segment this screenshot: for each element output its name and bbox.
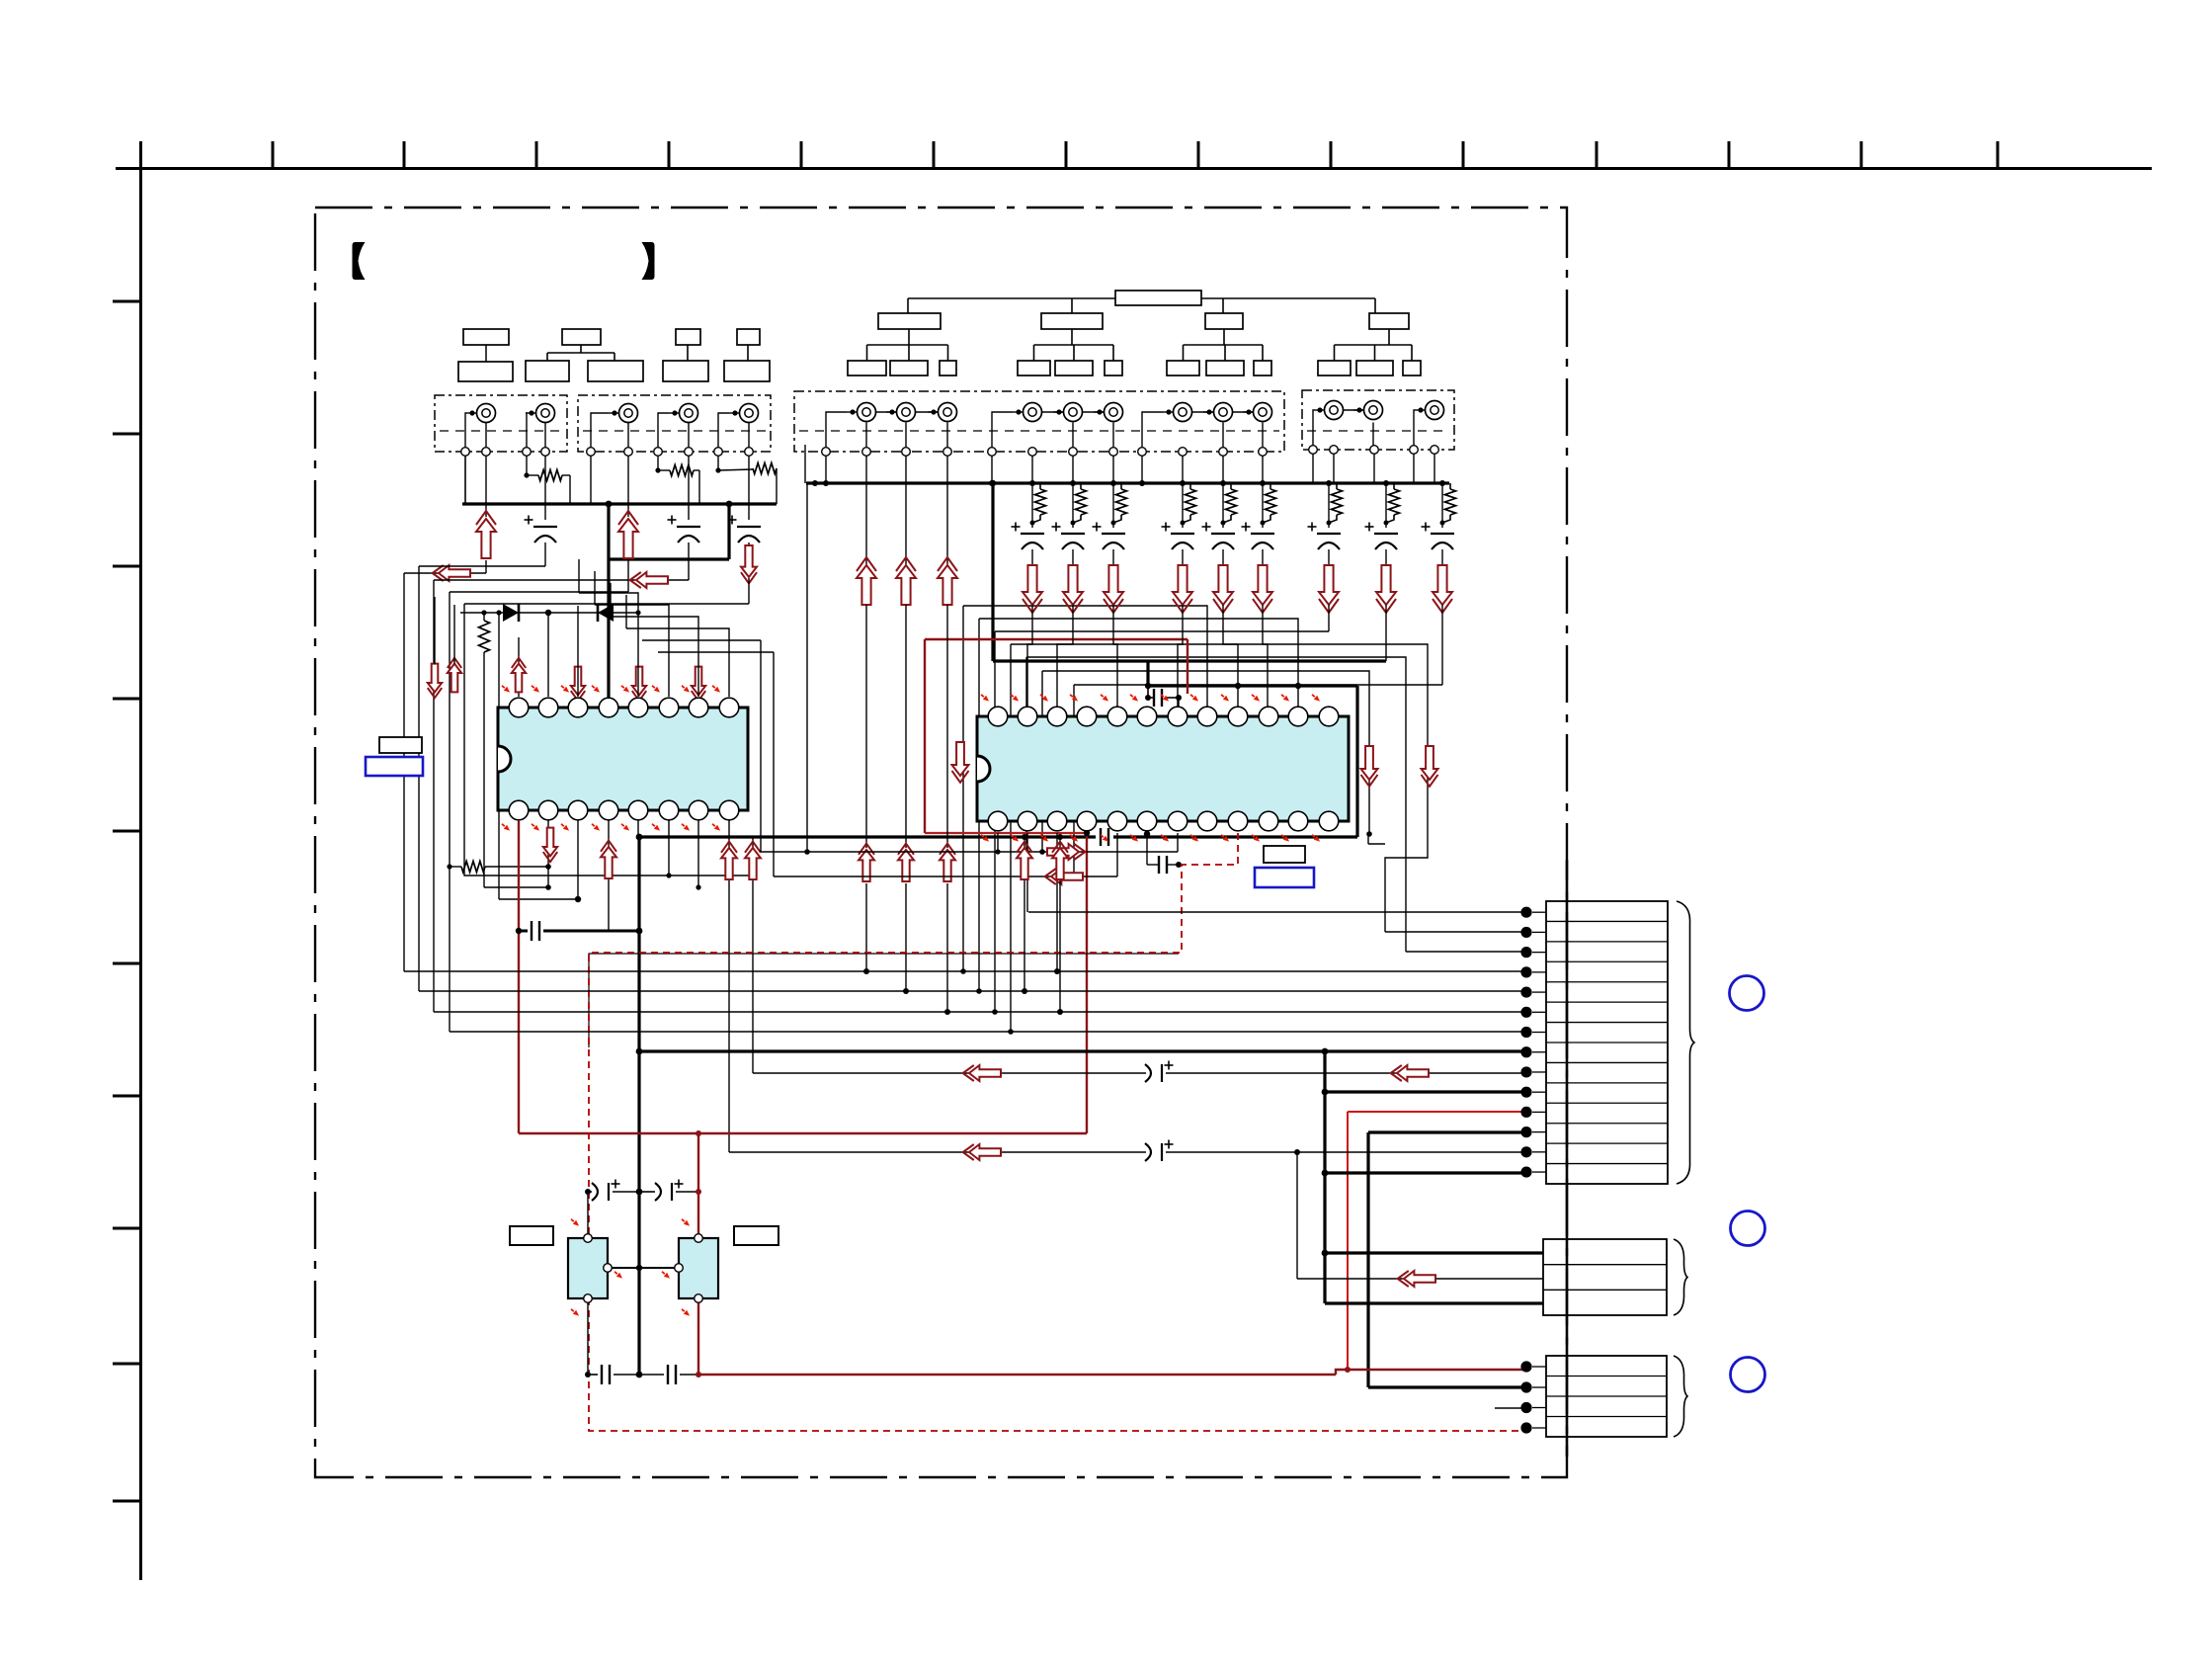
signal arrow: [1319, 565, 1339, 613]
wire: [1166, 1072, 1526, 1074]
wire: [1223, 605, 1238, 708]
wire: [587, 1298, 589, 1375]
pin arrow: [1038, 693, 1049, 704]
wire: [924, 639, 926, 833]
brace: [1674, 1239, 1687, 1315]
pin: [943, 448, 952, 457]
wire: [450, 591, 628, 593]
wire: [595, 571, 669, 697]
connector pin: [1520, 1361, 1546, 1372]
pin arrow: [1159, 833, 1170, 844]
wire: [642, 639, 761, 641]
connector pin: [1520, 907, 1546, 918]
wire: [1263, 605, 1268, 708]
connector pin: [1520, 1007, 1546, 1018]
capacitor C: [1093, 523, 1126, 550]
pin arrow: [1068, 693, 1079, 704]
IC U2: [977, 707, 1349, 831]
wire: [1008, 644, 1428, 1035]
signal arrow: [1361, 746, 1378, 787]
capacitor C12: [602, 1365, 610, 1384]
wire: [547, 613, 549, 697]
wire: [718, 413, 729, 448]
wire: [1414, 410, 1415, 446]
pin: [1309, 446, 1318, 455]
signal arrow: [571, 667, 585, 702]
signal arrow: [857, 557, 876, 605]
wire: [1178, 605, 1183, 708]
signal arrow: [1398, 1271, 1435, 1287]
jack J1: [466, 404, 496, 423]
wire: [946, 483, 948, 565]
wire: [1072, 549, 1074, 565]
wire: [526, 413, 527, 448]
wire: [1322, 1089, 1526, 1096]
signal arrow: [859, 844, 874, 881]
wire: [544, 542, 546, 566]
signal arrow: [745, 842, 761, 879]
wire: [1148, 697, 1154, 699]
wire: [865, 423, 867, 448]
wire: [804, 445, 810, 855]
resistor R5: [479, 621, 490, 652]
pin: [482, 448, 491, 457]
signal arrow: [1052, 842, 1068, 879]
wire: [753, 1072, 1146, 1074]
jack J17: [1415, 401, 1444, 420]
pin arrow: [500, 822, 511, 833]
label box: [1318, 313, 1421, 376]
pin: [461, 448, 470, 457]
node: [823, 480, 1145, 486]
signal arrow: [1391, 1065, 1429, 1081]
transistor Q2: [675, 1234, 718, 1303]
wire: [1039, 671, 1372, 855]
wire: [1182, 456, 1184, 483]
wire: [1113, 835, 1357, 838]
wire: [1566, 860, 1569, 1457]
capacitor C: [1422, 523, 1455, 550]
wire: [435, 597, 454, 664]
wire: [1182, 549, 1184, 565]
jack J4: [669, 404, 698, 423]
wire: [748, 456, 750, 520]
resistor R: [1073, 483, 1087, 523]
pin: [1179, 448, 1188, 457]
wire: [857, 410, 1373, 412]
wire: [1440, 483, 1445, 528]
wire: [636, 820, 643, 840]
label box: [379, 737, 422, 753]
wire: [658, 413, 669, 448]
jack J6: [847, 403, 876, 422]
wire: [1322, 1250, 1543, 1257]
wire: [1368, 834, 1526, 932]
wire: [1146, 661, 1149, 686]
connector pin: [1520, 1127, 1546, 1137]
wire: [905, 456, 907, 483]
resistor R: [1113, 483, 1127, 523]
wire: [1366, 1132, 1369, 1387]
wire: [585, 1372, 598, 1377]
resistor R3: [718, 463, 777, 474]
connector box (dash-dot): [1302, 390, 1454, 450]
diode D1: [503, 604, 519, 622]
wire: [1323, 1051, 1326, 1303]
signal arrow: [692, 667, 705, 702]
wire: [688, 542, 690, 580]
wire: [589, 954, 1179, 1047]
wire: [697, 1298, 699, 1375]
wire: [1297, 1278, 1543, 1280]
connector box (dash-dot): [435, 395, 567, 452]
wire: [1495, 1407, 1526, 1409]
label box: [1264, 846, 1305, 863]
pin arrow: [1219, 833, 1230, 844]
wire: [992, 631, 1329, 1015]
wire: [1054, 833, 1060, 974]
signal arrow: [632, 667, 646, 702]
pin arrow: [1188, 693, 1199, 704]
jack J13: [1203, 403, 1233, 422]
wire: [1328, 549, 1330, 565]
wire: [1116, 833, 1118, 876]
wire: [1024, 657, 1406, 952]
capacitor C1: [525, 516, 558, 543]
wire: [1262, 456, 1264, 483]
pin arrow: [680, 684, 691, 695]
label box: [663, 329, 708, 381]
wire: [464, 604, 753, 876]
wire: [992, 412, 1013, 448]
pin arrow: [1219, 693, 1230, 704]
pin arrow: [1310, 693, 1321, 704]
bracket [: [353, 242, 366, 280]
pin: [862, 448, 871, 457]
pin arrow: [530, 684, 540, 695]
pin: [988, 448, 997, 457]
signal arrow: [963, 1144, 1001, 1160]
wire bus (line input ground): [806, 480, 1449, 486]
wire: [608, 1265, 679, 1271]
wire: [1112, 549, 1114, 565]
connector pin: [1520, 1422, 1546, 1433]
marker circle (blue): [1730, 976, 1764, 1011]
wire: [976, 619, 1298, 994]
wire: [579, 559, 638, 697]
wire: [1072, 456, 1074, 483]
signal arrow: [476, 511, 496, 558]
wire: [403, 573, 405, 971]
signal arrow: [1376, 565, 1396, 613]
wire: [697, 1133, 699, 1238]
wire: [1031, 456, 1033, 483]
jack J16: [1353, 401, 1383, 420]
wire: [946, 605, 948, 848]
wire: [485, 560, 487, 573]
pin arrow: [1159, 693, 1170, 704]
wire: [1385, 605, 1387, 661]
wire: [1325, 1301, 1543, 1304]
node: [1439, 480, 1445, 486]
signal arrow: [896, 557, 916, 605]
wire: [728, 820, 730, 1152]
capacitor C2: [668, 516, 701, 543]
wire: [1177, 833, 1179, 852]
wire: [639, 835, 1096, 838]
pin arrow: [619, 684, 630, 695]
wire: [863, 883, 869, 974]
signal arrow: [543, 828, 557, 863]
wire: [1312, 454, 1314, 483]
jack J8: [928, 403, 957, 422]
connector pin: [1520, 1087, 1546, 1098]
signal arrow: [741, 545, 757, 583]
wire: [698, 1367, 1526, 1375]
wire: [434, 1011, 1526, 1013]
signal arrow: [1213, 565, 1233, 613]
wire: [627, 560, 629, 592]
connector pin: [1520, 1402, 1546, 1413]
connector pin: [1520, 1046, 1546, 1057]
resistor R: [1386, 483, 1400, 523]
label box: [848, 313, 956, 376]
node: [1383, 480, 1389, 486]
wire: [524, 472, 570, 504]
signal arrow: [1023, 565, 1042, 613]
signal arrow: [618, 511, 638, 558]
wire: [774, 652, 1117, 876]
wire: [905, 483, 907, 565]
diode D2: [598, 604, 614, 622]
capacitor C: [1308, 523, 1342, 550]
pin: [587, 448, 596, 457]
pin: [1219, 448, 1228, 457]
pin: [1431, 446, 1439, 455]
pin arrow: [710, 822, 721, 833]
signal arrow: [1047, 844, 1085, 860]
capacitor C9: [1145, 1140, 1174, 1162]
signal arrow: [963, 1065, 1001, 1081]
wire: [1028, 911, 1526, 913]
signal arrow: [940, 844, 955, 881]
wire: [960, 606, 1207, 974]
wire: [748, 542, 750, 545]
wire (dashed red): [589, 833, 1521, 1431]
wire: [1333, 454, 1335, 483]
wire: [715, 456, 720, 473]
wire: [1262, 549, 1264, 565]
pin: [714, 448, 723, 457]
wire: [611, 583, 698, 697]
jack J10: [1053, 403, 1083, 422]
label box: [1167, 313, 1271, 376]
resistor R: [1263, 483, 1276, 523]
node: [1260, 480, 1266, 486]
label box: [908, 291, 1375, 313]
wire: [519, 1124, 1087, 1136]
signal arrow: [1253, 565, 1272, 613]
wire: [1296, 1152, 1298, 1279]
wire: [577, 606, 579, 697]
wire: [696, 820, 700, 890]
wire: [761, 640, 1178, 852]
wire: [1322, 1170, 1526, 1177]
connector box (dash-dot): [578, 395, 771, 452]
wire: [1313, 410, 1314, 446]
connector pin: [1520, 927, 1546, 938]
wire: [991, 456, 993, 483]
pin arrow: [530, 822, 540, 833]
wire: [1022, 834, 1027, 994]
wire: [626, 595, 729, 697]
wire: [1372, 423, 1374, 448]
capacitor C8: [1145, 1061, 1174, 1083]
jack J7: [886, 403, 916, 422]
pin: [1410, 446, 1419, 455]
wire: [418, 566, 420, 991]
wire: [465, 413, 466, 448]
wire: [449, 592, 451, 1032]
connector pin: [1520, 1146, 1546, 1157]
label box: [734, 1226, 778, 1245]
node: [545, 610, 551, 616]
wire: [748, 578, 750, 604]
resistor R: [1223, 483, 1237, 523]
capacitor C: [1012, 523, 1045, 550]
wire: [419, 565, 545, 567]
resistor R1: [538, 470, 562, 481]
capacitor C10: [592, 1180, 620, 1202]
wire: [944, 883, 950, 1015]
capacitor C: [1052, 523, 1086, 550]
wire: [729, 1151, 1146, 1153]
wire: [1031, 549, 1033, 565]
wire: [905, 605, 907, 848]
label box: [724, 329, 770, 381]
wire: [1084, 830, 1090, 1124]
wire: [825, 456, 827, 483]
wire: [1413, 454, 1415, 483]
wire: [518, 820, 520, 1133]
label box: [458, 329, 513, 381]
pin arrow: [569, 1217, 623, 1318]
wire: [485, 423, 487, 448]
wire: [1441, 549, 1443, 565]
wire: [1221, 483, 1226, 528]
resistor R4: [447, 862, 550, 873]
connector CN2: [1543, 1239, 1667, 1315]
wire: [1141, 456, 1143, 483]
pin: [1370, 446, 1379, 455]
brace: [1677, 901, 1694, 1184]
capacitor C: [1162, 523, 1195, 550]
wire: [1145, 686, 1151, 701]
wire: [865, 605, 867, 848]
wire: [1072, 423, 1074, 448]
wire: [543, 928, 642, 935]
wire: [404, 970, 1526, 972]
wire: [636, 1048, 1526, 1055]
pin arrow: [590, 684, 601, 695]
connector pin: [1520, 1107, 1546, 1118]
label box: [1018, 313, 1122, 376]
wire: [518, 637, 520, 697]
node: [1070, 480, 1076, 486]
pin arrow: [650, 822, 661, 833]
signal arrow: [1017, 842, 1032, 879]
signal arrow: [938, 557, 957, 605]
wire: [1167, 695, 1182, 708]
wire: [666, 820, 671, 878]
wire: [865, 456, 867, 483]
capacitor C11: [655, 1180, 684, 1202]
pin: [541, 448, 550, 457]
board outline (dash-dot boundary): [315, 208, 1567, 1477]
wire: [1181, 483, 1186, 528]
pin arrow: [1250, 833, 1261, 844]
pin arrow: [979, 693, 990, 704]
wire: [688, 423, 690, 448]
wire: [658, 651, 774, 653]
pin arrow: [1310, 833, 1321, 844]
pin arrow: [1099, 833, 1109, 844]
wire: [1355, 686, 1358, 837]
pin arrow: [1128, 833, 1139, 844]
wire: [1385, 549, 1387, 565]
pin arrow: [500, 684, 511, 695]
jack J3: [609, 404, 638, 423]
label box: [526, 329, 643, 381]
wire: [1030, 483, 1035, 528]
label box: [510, 1226, 553, 1245]
signal arrow: [952, 742, 969, 783]
node: [1180, 480, 1186, 486]
signal arrow: [1063, 565, 1083, 613]
wire: [464, 603, 749, 605]
node: [1326, 480, 1332, 486]
wire: [1027, 605, 1032, 708]
wire: [590, 456, 592, 504]
jack J15: [1314, 401, 1344, 420]
wire: [990, 480, 996, 661]
pin: [822, 448, 831, 457]
pin arrow: [1009, 693, 1020, 704]
resistor R: [1032, 483, 1046, 523]
resistor R: [1183, 483, 1196, 523]
capacitor C13: [668, 1365, 676, 1384]
wire: [1144, 831, 1150, 865]
connector box (dash-dot): [794, 391, 1284, 452]
capacitor C: [1202, 523, 1236, 550]
capacitor C7: [1159, 856, 1167, 874]
pin arrow: [1068, 833, 1079, 844]
signal arrow: [1045, 869, 1083, 884]
pin arrow: [660, 1217, 691, 1318]
pin: [1028, 448, 1037, 457]
wire: [606, 501, 733, 708]
wire: [464, 456, 466, 504]
wire: [1441, 605, 1443, 685]
jack J2: [526, 404, 555, 423]
wire: [1222, 456, 1224, 483]
wire: [1113, 605, 1117, 708]
wire: [627, 423, 629, 448]
capacitor C4: [532, 921, 539, 941]
pin arrow: [1279, 833, 1290, 844]
wire: [460, 610, 641, 615]
wire: [925, 832, 1087, 834]
